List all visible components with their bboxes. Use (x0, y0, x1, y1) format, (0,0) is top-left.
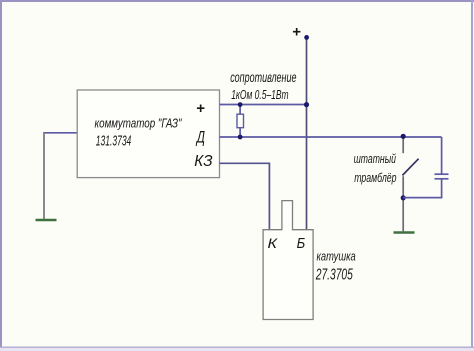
svg-text:+: + (292, 24, 301, 41)
node: + supply dot (304, 35, 309, 40)
node: switch bottom junction (401, 195, 406, 200)
capacitor C1 branch wires (441, 137, 443, 174)
wire: КЗ to coil К (220, 163, 270, 229)
svg-text:сопротивление: сопротивление (230, 70, 297, 85)
svg-text:27.3705: 27.3705 (315, 267, 353, 284)
switch S1 upper stub (402, 136, 404, 153)
coil box with HV tower (263, 201, 313, 320)
switch S1 lower stub / ground lead (402, 176, 404, 231)
window border right (471, 0, 473, 351)
svg-text:штатный: штатный (354, 151, 396, 166)
wire: upper horizontal (+ pin to vertical) (220, 104, 307, 106)
commutator U1 box (77, 90, 219, 178)
node: resistor top (238, 102, 243, 107)
svg-text:Д: Д (195, 127, 205, 146)
node: junction of + line and upper wire (304, 102, 309, 107)
resistor R1 leads (239, 105, 241, 115)
window border top (0, 0, 474, 2)
svg-text:1кОм 0.5–1Вт: 1кОм 0.5–1Вт (231, 87, 289, 102)
wire: left lead from commutator to down corner (44, 132, 78, 134)
svg-text:Б: Б (297, 236, 306, 252)
ground (right) (394, 231, 415, 233)
window border left (0, 0, 2, 351)
svg-text:+: + (196, 100, 205, 117)
svg-text:К: К (268, 235, 278, 251)
node: resistor bottom (238, 135, 243, 140)
svg-text:коммутатор "ГАЗ": коммутатор "ГАЗ" (95, 116, 183, 131)
switch S1 blade (402, 159, 418, 176)
svg-text:катушка: катушка (317, 249, 356, 264)
node: switch top (401, 134, 406, 139)
svg-text:трамблёр: трамблёр (354, 170, 396, 185)
wire: left vertical to ground (43, 132, 45, 219)
ground (left) (36, 219, 57, 221)
wire: + vertical line down to coil Б (306, 37, 308, 229)
svg-text:131.3734: 131.3734 (96, 133, 132, 150)
capacitor C1 plates (435, 173, 449, 175)
wire: Д horizontal to capacitor corner (220, 136, 442, 138)
resistor R1 body (237, 114, 244, 128)
window bottom strip (0, 347, 474, 349)
svg-text:КЗ: КЗ (194, 153, 213, 170)
